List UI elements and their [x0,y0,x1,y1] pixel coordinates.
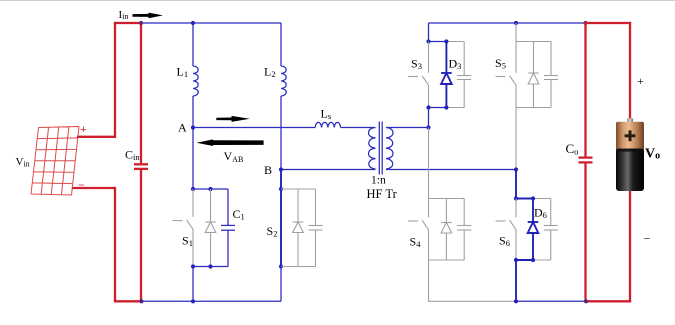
transformer HF Tr secondary winding [386,128,393,170]
wire bottom rail left bridge [142,300,282,302]
wire PV- stub [73,187,116,189]
node Cin top junction [139,21,143,25]
label S2 [267,224,278,238]
wire PV- drop [114,187,116,303]
capacitor Co wire bottom [584,164,586,302]
switch S6 blade [510,220,517,230]
node S6 top left [514,196,518,200]
wire secondary bottom [386,169,516,171]
wire leg1 L1 to S1 [192,96,194,189]
switch S3 lower lead [428,86,430,108]
wire leg3 to transformer junction [428,108,430,128]
top border hairline [0,0,675,2]
diode of S1 (antiparallel) [205,189,216,267]
switch S2 leg (closed, bold blue) [280,189,282,267]
wire S6 box bottom gray part [533,259,551,261]
node S2 top [279,187,283,191]
wire output bottom red [585,300,631,302]
svg-text:−: − [644,232,651,246]
wire top red to Cin node [114,22,141,24]
node bottom rail / output [584,299,588,303]
PV panel (source Vin) [31,127,79,196]
diode of S2 (antiparallel) [293,189,304,267]
wire battery riser [629,22,631,122]
wire bottom red to Cin node [114,300,142,302]
wire leg3 top [428,23,430,42]
node bottom rail / leg1 [191,299,195,303]
arrow VAB pointing left [197,139,264,146]
battery Vo (output) [616,118,644,191]
switch S3 blade [422,76,429,86]
wire S6 box bottom blue part [516,259,533,261]
wire node A to Ls [193,127,315,129]
label Ls [321,107,332,121]
wire S3 box bottom gray part [446,107,464,109]
wire leg2 bottom [280,267,282,302]
label HF Tr [367,187,398,201]
wire S1 box top (blue) [193,188,228,190]
label Cin [125,148,140,162]
wire S4 box top [429,198,465,200]
diode D6 (bold blue) [528,199,539,261]
label VAB [224,149,244,164]
capacitor of S5 snubber [544,42,558,108]
label D3 [449,57,462,71]
svg-text:+: + [80,122,87,136]
capacitor of S6 snubber [544,199,558,261]
svg-text:HF Tr: HF Tr [367,187,398,201]
transformer HF Tr primary winding [369,128,376,170]
node bottom rail / S6 leg [514,299,518,303]
label S1 [182,234,193,248]
wire leg2 node B to S2 (bold) [280,170,282,190]
wire S3 box bottom blue part [429,107,447,109]
node A [191,125,195,129]
wire S2 box bottom (gray) [281,266,316,268]
diode D3 (bold blue) [441,42,452,108]
node S6 bottom left [514,258,518,262]
diode of S4 [441,199,452,261]
arrow Iin (current direction) [133,13,164,19]
switch S4 upper lead [428,199,430,218]
wire node B to transformer primary [281,169,376,171]
switch S4 blade [422,220,429,230]
wire S5 box bottom [516,107,551,109]
PV minus terminal label [78,178,85,192]
capacitor C1 branch top [227,189,229,225]
inductor Ls [315,122,340,127]
label D6 [534,206,547,220]
wire bottom rail right (gray) [429,300,517,302]
wire S2 box top (gray) [281,188,316,190]
switch S5 gate tick [496,76,506,78]
wire S6 box top gray part [533,198,551,200]
switch S5 lower lead [515,86,517,108]
label C1 [233,207,245,221]
label Iin [119,9,129,21]
node S3 top left [426,39,430,43]
wire leg2 top [280,23,282,66]
switch S6 upper lead [515,199,517,218]
label B [264,163,272,177]
label S6 [499,234,510,248]
svg-text:−: − [78,178,85,192]
node S1 top mid [208,187,212,191]
label S5 [495,56,506,70]
label L1 [177,65,189,79]
wire S6 box top blue part [516,198,533,200]
transformer core [379,122,382,175]
node S3 top mid [444,39,448,43]
node S1 bottom mid [208,264,212,268]
inductor L2 [281,66,286,96]
wire leg1 top [192,23,194,66]
capacitor Cin plates [134,164,148,169]
node S6 bottom mid [531,258,535,262]
wire PV+ riser [114,22,116,138]
node leg3 / secondary top [426,125,430,129]
capacitor of S3 snubber [457,42,471,108]
wire output top red [584,22,631,24]
svg-text:A: A [178,121,187,135]
label S3 [411,57,422,71]
svg-text:1:n: 1:n [371,175,386,187]
diode of S5 [528,42,539,108]
label L2 [264,65,276,79]
capacitor C1 branch bottom [227,230,229,266]
wire Ls to transformer primary [341,127,376,129]
wire leg5 lower (gray) [515,108,517,170]
switch S1 gate tick [173,220,183,222]
node Cin bottom junction [139,299,143,303]
capacitor Cin (wire bottom) [140,170,142,301]
wire leg6 lower (bold blue) [515,260,517,301]
node secondary bottom / leg6 [514,167,518,171]
svg-text:+: + [637,74,644,88]
wire S3 box top gray part [446,41,464,43]
wire leg4 upper (gray) [428,128,430,199]
wire leg1 bottom [192,267,194,302]
switch S4 lower lead [428,230,430,260]
node S2 bottom [279,264,283,268]
capacitor of S4 snubber [457,199,471,261]
label minus output [644,232,651,246]
arrow at node A pointing right [216,116,250,122]
switch S1 blade [187,220,194,230]
node S3 bottom mid [444,105,448,109]
switch S6 lower lead [515,230,517,260]
node S1 bottom left [191,264,195,268]
capacitor C1 plates [221,225,235,230]
PV plus terminal label [80,122,87,136]
wire S3 box top blue part [429,41,447,43]
capacitor Co wire top [584,23,586,157]
capacitor of S2 snubber [309,189,323,267]
wire PV+ stub [77,136,115,138]
wire leg2 L2 to node B [280,96,282,170]
wire S4 box bottom [429,259,465,261]
wire top rail left bridge [141,22,281,24]
wire top rail right bridge [429,22,586,24]
wire bottom rail right (blue) [516,300,586,302]
switch S1 lower lead [192,230,194,267]
node S1 top left [191,187,195,191]
label A [178,121,187,135]
label Vin [16,156,30,168]
node top rail / leg1 [191,21,195,25]
capacitor Cin (wire top) [140,23,142,163]
wire S1 box bottom (blue) [193,266,228,268]
wire leg5 top (gray) [515,23,517,42]
node S6 top mid [531,196,535,200]
inductor L1 [193,66,198,96]
label 1:n [371,175,386,187]
switch S5 upper lead [515,42,517,73]
wire leg6 upper (bold blue) [515,170,517,199]
node top rail / output [583,21,587,25]
node S3 bottom left [426,105,430,109]
node top rail / S5 leg [514,21,518,25]
switch S6 gate tick [496,220,506,222]
switch S3 gate tick [408,76,418,78]
switch S5 blade [510,76,517,86]
label S4 [410,235,422,249]
switch S3 upper lead [428,42,430,73]
label Vo [645,147,660,162]
wire leg4 lower (gray) [428,260,430,302]
node B [279,167,283,171]
wire S5 box top [516,41,551,43]
wire secondary top [386,127,429,129]
svg-text:B: B [264,163,272,177]
capacitor Co plates [579,158,593,163]
switch S1 upper lead [192,189,194,217]
label Co [566,141,579,156]
wire battery drop [629,191,631,302]
label plus output [637,74,644,88]
switch S4 gate tick [408,220,418,222]
